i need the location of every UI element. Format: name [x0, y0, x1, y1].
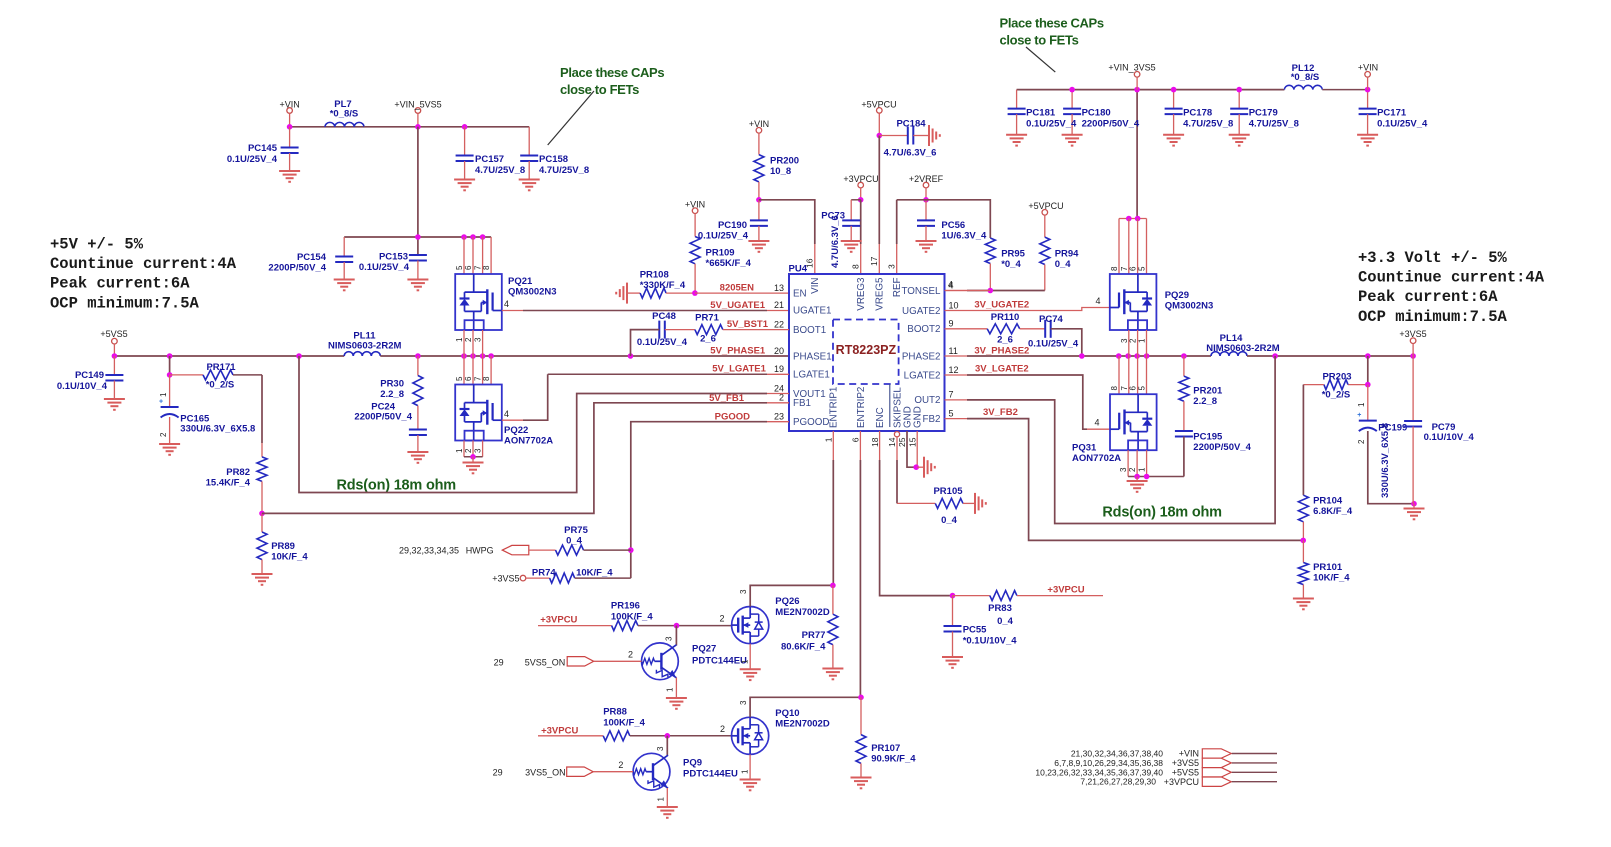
- svg-text:4.7U/6.3V_6: 4.7U/6.3V_6: [830, 215, 841, 268]
- svg-text:2: 2: [720, 724, 725, 734]
- svg-text:ME2N7002D: ME2N7002D: [775, 719, 830, 730]
- svg-text:AON7702A: AON7702A: [1072, 453, 1121, 464]
- svg-text:3: 3: [739, 700, 748, 705]
- svg-text:PR110: PR110: [991, 312, 1020, 323]
- svg-text:PR71: PR71: [695, 313, 719, 324]
- svg-text:PC184: PC184: [896, 119, 926, 130]
- svg-text:*0.1U/10V_4: *0.1U/10V_4: [963, 636, 1018, 647]
- svg-text:PR201: PR201: [1193, 386, 1223, 397]
- svg-text:ENC: ENC: [875, 407, 886, 428]
- svg-text:PR95: PR95: [1001, 249, 1025, 260]
- svg-text:PDTC144EU: PDTC144EU: [692, 656, 747, 667]
- svg-text:1: 1: [824, 437, 834, 442]
- svg-text:PR200: PR200: [770, 156, 799, 167]
- svg-text:ME2N7002D: ME2N7002D: [775, 607, 830, 618]
- svg-text:3V_FB2: 3V_FB2: [983, 407, 1018, 418]
- svg-text:2_6: 2_6: [997, 335, 1013, 346]
- svg-text:QM3002N3: QM3002N3: [1165, 301, 1214, 312]
- svg-text:2200P/50V_4: 2200P/50V_4: [1193, 442, 1251, 453]
- svg-text:+VIN_5VS5: +VIN_5VS5: [394, 100, 441, 110]
- svg-text:0.1U/25V_4: 0.1U/25V_4: [698, 231, 749, 242]
- svg-text:7,21,26,27,28,29,30: 7,21,26,27,28,29,30: [1080, 777, 1156, 787]
- svg-text:2200P/50V_4: 2200P/50V_4: [354, 412, 412, 423]
- svg-text:2: 2: [1129, 338, 1138, 343]
- svg-text:5: 5: [1138, 386, 1147, 391]
- svg-text:PC145: PC145: [248, 143, 278, 154]
- svg-text:2: 2: [719, 614, 724, 624]
- svg-text:PQ31: PQ31: [1072, 443, 1097, 454]
- svg-text:PQ9: PQ9: [683, 758, 702, 769]
- svg-text:0.1U/25V_4: 0.1U/25V_4: [1028, 339, 1079, 350]
- svg-text:4.7U/25V_8: 4.7U/25V_8: [475, 165, 525, 176]
- svg-text:+3VPCU: +3VPCU: [540, 615, 577, 626]
- svg-text:PC181: PC181: [1026, 108, 1056, 119]
- svg-text:1: 1: [666, 687, 675, 692]
- svg-text:+5VPCU: +5VPCU: [1028, 201, 1063, 211]
- svg-text:PQ27: PQ27: [692, 644, 716, 655]
- svg-text:ENTRIP1: ENTRIP1: [829, 387, 840, 428]
- svg-text:LGATE1: LGATE1: [793, 370, 830, 381]
- svg-text:1: 1: [455, 337, 464, 342]
- svg-text:+VIN: +VIN: [685, 200, 705, 210]
- svg-text:4: 4: [504, 409, 509, 419]
- svg-text:5: 5: [455, 265, 464, 270]
- svg-text:+3VPCU: +3VPCU: [541, 725, 578, 736]
- svg-text:12: 12: [949, 365, 959, 375]
- svg-text:PR203: PR203: [1322, 372, 1351, 383]
- svg-text:4.7U/25V_8: 4.7U/25V_8: [539, 165, 589, 176]
- svg-text:+3.3 Volt +/- 5%: +3.3 Volt +/- 5%: [1358, 249, 1508, 267]
- svg-text:BOOT2: BOOT2: [907, 324, 940, 335]
- svg-text:19: 19: [774, 364, 784, 374]
- svg-text:OCP minimum:7.5A: OCP minimum:7.5A: [1358, 308, 1508, 326]
- svg-text:NIMS0603-2R2M: NIMS0603-2R2M: [328, 341, 401, 352]
- svg-text:3: 3: [656, 746, 665, 751]
- svg-text:PR88: PR88: [603, 707, 627, 718]
- svg-text:+: +: [159, 399, 163, 406]
- svg-text:Countinue current:4A: Countinue current:4A: [1358, 269, 1545, 287]
- svg-text:10_8: 10_8: [770, 166, 791, 177]
- svg-text:4: 4: [1095, 296, 1100, 306]
- svg-text:PC180: PC180: [1082, 108, 1111, 119]
- svg-text:0_4: 0_4: [941, 515, 958, 526]
- svg-text:1: 1: [159, 392, 168, 397]
- svg-text:22: 22: [774, 319, 784, 329]
- svg-text:3V_LGATE2: 3V_LGATE2: [975, 364, 1029, 375]
- svg-text:PR105: PR105: [933, 486, 963, 497]
- svg-text:4: 4: [1094, 418, 1099, 428]
- svg-text:+: +: [1357, 412, 1361, 419]
- svg-text:0.1U/25V_4: 0.1U/25V_4: [359, 262, 410, 273]
- svg-text:6: 6: [1129, 386, 1138, 391]
- svg-text:Peak current:6A: Peak current:6A: [50, 275, 190, 293]
- svg-text:PR107: PR107: [871, 743, 900, 754]
- svg-text:FB1: FB1: [793, 398, 811, 409]
- svg-text:5V_PHASE1: 5V_PHASE1: [710, 345, 766, 356]
- svg-text:PQ22: PQ22: [504, 425, 528, 436]
- svg-text:PR83: PR83: [988, 603, 1012, 614]
- svg-text:*0_8/S: *0_8/S: [1291, 72, 1320, 83]
- svg-text:AON7702A: AON7702A: [504, 436, 553, 447]
- svg-text:1: 1: [741, 659, 750, 664]
- svg-text:100K/F_4: 100K/F_4: [603, 717, 645, 728]
- svg-text:29,32,33,34,35: 29,32,33,34,35: [399, 546, 459, 556]
- svg-text:20: 20: [774, 346, 784, 356]
- svg-text:0_4: 0_4: [566, 536, 583, 547]
- svg-text:PR109: PR109: [706, 248, 735, 259]
- svg-text:7: 7: [949, 390, 954, 400]
- svg-text:11: 11: [949, 346, 958, 356]
- svg-text:6.8K/F_4: 6.8K/F_4: [1313, 506, 1353, 517]
- svg-text:PQ21: PQ21: [508, 276, 533, 287]
- svg-text:2200P/50V_4: 2200P/50V_4: [268, 263, 326, 274]
- svg-text:2: 2: [1357, 439, 1366, 444]
- svg-text:*665K/F_4: *665K/F_4: [706, 258, 752, 269]
- svg-text:29: 29: [494, 657, 504, 667]
- svg-text:PC195: PC195: [1193, 432, 1223, 443]
- svg-text:PR75: PR75: [564, 525, 588, 536]
- svg-text:0.1U/10V_4: 0.1U/10V_4: [1424, 432, 1475, 443]
- svg-text:close to FETs: close to FETs: [560, 82, 639, 97]
- svg-text:15: 15: [907, 437, 917, 447]
- svg-text:PC158: PC158: [539, 154, 568, 165]
- svg-text:3: 3: [474, 448, 483, 453]
- svg-text:17: 17: [869, 256, 879, 266]
- svg-text:*0_2/S: *0_2/S: [1322, 390, 1351, 401]
- svg-text:23: 23: [774, 412, 784, 422]
- svg-text:+5VS5: +5VS5: [100, 329, 127, 339]
- svg-text:6: 6: [464, 376, 473, 381]
- svg-text:+3VPCU: +3VPCU: [1047, 584, 1084, 595]
- svg-text:+VIN_3VS5: +VIN_3VS5: [1108, 63, 1155, 73]
- svg-text:3V_UGATE2: 3V_UGATE2: [974, 300, 1029, 311]
- svg-text:PR30: PR30: [380, 379, 404, 390]
- svg-text:UGATE2: UGATE2: [902, 306, 940, 317]
- svg-text:3V_PHASE2: 3V_PHASE2: [974, 345, 1029, 356]
- svg-text:VREG3: VREG3: [856, 277, 867, 311]
- svg-text:NIMS0603-2R2M: NIMS0603-2R2M: [1206, 343, 1279, 354]
- svg-text:PR74: PR74: [532, 568, 556, 579]
- svg-text:8: 8: [851, 264, 861, 269]
- svg-text:5V_UGATE1: 5V_UGATE1: [710, 300, 765, 311]
- svg-text:GND: GND: [913, 406, 924, 428]
- svg-text:PR82: PR82: [226, 467, 250, 478]
- svg-text:PC154: PC154: [297, 252, 327, 263]
- svg-text:PR77: PR77: [802, 630, 826, 641]
- svg-text:PC179: PC179: [1249, 108, 1278, 119]
- svg-text:+5VPCU: +5VPCU: [861, 100, 896, 110]
- svg-text:RT8223PZ: RT8223PZ: [836, 343, 897, 357]
- svg-text:3: 3: [665, 636, 674, 641]
- svg-text:VREG5: VREG5: [875, 277, 886, 311]
- svg-text:29: 29: [493, 768, 503, 778]
- svg-text:PR171: PR171: [206, 362, 236, 373]
- svg-text:REF: REF: [892, 277, 903, 297]
- svg-text:+VIN: +VIN: [279, 100, 299, 110]
- svg-text:PR101: PR101: [1313, 562, 1343, 573]
- svg-text:LGATE2: LGATE2: [904, 370, 941, 381]
- svg-text:1: 1: [1138, 338, 1147, 343]
- svg-text:0.1U/10V_4: 0.1U/10V_4: [57, 381, 108, 392]
- svg-text:PU4: PU4: [789, 264, 808, 275]
- svg-text:7: 7: [1120, 266, 1129, 271]
- svg-text:PR94: PR94: [1055, 249, 1079, 260]
- svg-text:1: 1: [740, 769, 749, 774]
- svg-text:6: 6: [464, 265, 473, 270]
- svg-text:*330K/F_4: *330K/F_4: [640, 280, 686, 291]
- svg-text:8: 8: [1110, 386, 1119, 391]
- svg-text:4.7U/6.3V_6: 4.7U/6.3V_6: [884, 148, 937, 159]
- svg-text:PR104: PR104: [1313, 496, 1343, 507]
- svg-text:8205EN: 8205EN: [720, 283, 754, 294]
- svg-text:8: 8: [482, 265, 491, 270]
- svg-text:14: 14: [887, 437, 897, 447]
- svg-text:+3VS5: +3VS5: [492, 574, 519, 584]
- svg-text:OCP minimum:7.5A: OCP minimum:7.5A: [50, 294, 200, 312]
- svg-text:3: 3: [474, 337, 483, 342]
- svg-text:PC48: PC48: [652, 311, 676, 322]
- svg-text:1: 1: [1357, 402, 1366, 407]
- svg-text:UGATE1: UGATE1: [793, 306, 831, 317]
- svg-text:PC55: PC55: [963, 625, 987, 636]
- svg-text:9: 9: [949, 319, 954, 329]
- svg-text:PC74: PC74: [1039, 314, 1063, 325]
- svg-text:0_4: 0_4: [1055, 259, 1072, 270]
- svg-text:2: 2: [1128, 467, 1137, 472]
- svg-text:5: 5: [1138, 266, 1147, 271]
- svg-text:2: 2: [464, 337, 473, 342]
- svg-text:*0_8/S: *0_8/S: [330, 109, 359, 120]
- svg-text:+3VPCU: +3VPCU: [843, 174, 878, 184]
- svg-text:OUT2: OUT2: [914, 395, 940, 406]
- svg-text:PDTC144EU: PDTC144EU: [683, 769, 738, 780]
- svg-text:*0_4: *0_4: [1001, 259, 1021, 270]
- svg-text:21: 21: [774, 300, 784, 310]
- svg-text:PQ29: PQ29: [1165, 290, 1189, 301]
- svg-text:0.1U/25V_4: 0.1U/25V_4: [227, 154, 278, 165]
- svg-text:1: 1: [455, 448, 464, 453]
- svg-text:1: 1: [1138, 467, 1147, 472]
- svg-text:+VIN: +VIN: [1358, 63, 1378, 73]
- svg-text:8: 8: [1110, 266, 1119, 271]
- svg-text:2: 2: [159, 432, 168, 437]
- svg-text:Rds(on) 18m ohm: Rds(on) 18m ohm: [337, 478, 456, 494]
- svg-text:2_6: 2_6: [700, 334, 716, 345]
- svg-text:0_4: 0_4: [997, 616, 1014, 627]
- svg-text:6: 6: [851, 437, 861, 442]
- svg-text:5VS5_ON: 5VS5_ON: [525, 657, 566, 667]
- svg-text:PR108: PR108: [640, 270, 669, 281]
- svg-text:15.4K/F_4: 15.4K/F_4: [206, 478, 251, 489]
- svg-text:+3VS5: +3VS5: [1399, 329, 1426, 339]
- svg-text:330U/6.3V_6X5.8: 330U/6.3V_6X5.8: [1380, 423, 1391, 498]
- svg-text:QM3002N3: QM3002N3: [508, 287, 557, 298]
- svg-text:PC171: PC171: [1377, 108, 1407, 119]
- svg-text:VIN: VIN: [810, 278, 821, 294]
- svg-text:4.7U/25V_8: 4.7U/25V_8: [1183, 119, 1233, 130]
- svg-text:4: 4: [504, 299, 509, 309]
- svg-text:10K/F_4: 10K/F_4: [576, 568, 613, 579]
- svg-text:PC190: PC190: [718, 220, 747, 231]
- svg-text:PQ10: PQ10: [775, 708, 799, 719]
- svg-text:4: 4: [949, 280, 954, 290]
- svg-text:Countinue current:4A: Countinue current:4A: [50, 255, 237, 273]
- svg-text:100K/F_4: 100K/F_4: [611, 611, 653, 622]
- svg-text:330U/6.3V_6X5.8: 330U/6.3V_6X5.8: [180, 424, 255, 435]
- svg-text:2: 2: [618, 760, 623, 770]
- svg-text:PC149: PC149: [75, 370, 104, 381]
- svg-text:TONSEL: TONSEL: [901, 286, 941, 297]
- svg-text:PQ26: PQ26: [775, 596, 799, 607]
- svg-text:18: 18: [870, 437, 880, 447]
- svg-text:80.6K/F_4: 80.6K/F_4: [781, 642, 826, 653]
- svg-text:3: 3: [739, 589, 748, 594]
- svg-text:+3VPCU: +3VPCU: [1164, 777, 1199, 787]
- svg-text:EN: EN: [793, 288, 807, 299]
- svg-text:5V_LGATE1: 5V_LGATE1: [712, 363, 766, 374]
- svg-text:0.1U/25V_4: 0.1U/25V_4: [637, 337, 688, 348]
- svg-text:2: 2: [464, 448, 473, 453]
- svg-text:0.1U/25V_4: 0.1U/25V_4: [1026, 119, 1077, 130]
- svg-text:+VIN: +VIN: [749, 119, 769, 129]
- svg-text:1U/6.3V_4: 1U/6.3V_4: [941, 231, 987, 242]
- svg-text:3: 3: [1119, 467, 1128, 472]
- svg-text:Place these CAPs: Place these CAPs: [1000, 16, 1104, 31]
- svg-text:1: 1: [657, 797, 666, 802]
- svg-text:4.7U/25V_8: 4.7U/25V_8: [1249, 119, 1299, 130]
- svg-text:13: 13: [774, 283, 784, 293]
- svg-text:5V_BST1: 5V_BST1: [727, 319, 769, 330]
- svg-text:10: 10: [949, 300, 959, 310]
- svg-text:PC178: PC178: [1183, 108, 1212, 119]
- svg-text:PC153: PC153: [379, 252, 408, 263]
- svg-text:PC56: PC56: [941, 220, 965, 231]
- svg-text:2.2_8: 2.2_8: [1193, 396, 1217, 407]
- svg-text:HWPG: HWPG: [466, 546, 494, 556]
- svg-text:5: 5: [949, 408, 954, 418]
- svg-text:3VS5_ON: 3VS5_ON: [525, 768, 566, 778]
- svg-text:PGOOD: PGOOD: [793, 417, 829, 428]
- svg-text:25: 25: [897, 437, 907, 447]
- svg-text:10K/F_4: 10K/F_4: [1313, 573, 1350, 584]
- svg-text:5: 5: [455, 376, 464, 381]
- svg-text:PHASE2: PHASE2: [902, 351, 941, 362]
- svg-text:Peak current:6A: Peak current:6A: [1358, 288, 1498, 306]
- svg-text:3: 3: [887, 264, 897, 269]
- svg-text:ENTRIP2: ENTRIP2: [856, 387, 867, 428]
- svg-text:6: 6: [1129, 266, 1138, 271]
- svg-text:10K/F_4: 10K/F_4: [271, 552, 308, 563]
- svg-text:PR196: PR196: [611, 601, 640, 612]
- svg-text:close to FETs: close to FETs: [1000, 33, 1079, 48]
- svg-text:+2VREF: +2VREF: [909, 174, 944, 184]
- svg-text:PR89: PR89: [271, 541, 295, 552]
- svg-text:8: 8: [482, 376, 491, 381]
- svg-text:2: 2: [628, 650, 633, 660]
- svg-text:3: 3: [1120, 338, 1129, 343]
- svg-text:FB2: FB2: [923, 414, 941, 425]
- svg-text:Place these CAPs: Place these CAPs: [560, 65, 664, 80]
- svg-text:2200P/50V_4: 2200P/50V_4: [1082, 119, 1140, 130]
- svg-text:*0_2/S: *0_2/S: [206, 380, 235, 391]
- svg-text:PHASE1: PHASE1: [793, 351, 832, 362]
- svg-text:2.2_8: 2.2_8: [380, 389, 404, 400]
- svg-text:BOOT1: BOOT1: [793, 325, 826, 336]
- svg-text:+5V +/- 5%: +5V +/- 5%: [50, 236, 144, 254]
- svg-text:7: 7: [1120, 386, 1129, 391]
- svg-text:90.9K/F_4: 90.9K/F_4: [871, 754, 916, 765]
- svg-text:PC157: PC157: [475, 154, 504, 165]
- svg-text:0.1U/25V_4: 0.1U/25V_4: [1377, 119, 1428, 130]
- svg-text:Rds(on) 18m ohm: Rds(on) 18m ohm: [1102, 505, 1221, 521]
